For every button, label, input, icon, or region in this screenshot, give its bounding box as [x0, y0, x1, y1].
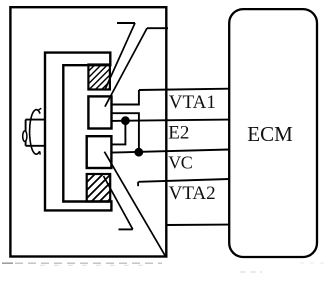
svg-text:ECM: ECM — [247, 122, 293, 146]
wire E2 — [112, 120, 230, 121]
wire VTA2 — [138, 179, 229, 182]
contact 2 (VTA2 brush) — [87, 136, 112, 168]
resistive track R2 (hatched) — [87, 174, 111, 202]
shaft end cap — [23, 131, 27, 142]
svg-text:VTA1: VTA1 — [169, 92, 216, 113]
rotation arrow around shaft — [30, 110, 40, 155]
shaft (throttle shaft) — [26, 120, 46, 146]
wiper arm W2 bar — [147, 27, 168, 29]
wire stub from contact 1 down to VC junction — [112, 113, 139, 152]
wire shield — [166, 224, 229, 226]
sensor housing box — [10, 7, 166, 256]
wiper arm W4 needle (to box corner) — [104, 152, 165, 256]
ECM U1 box — [229, 9, 317, 257]
wire VTA1 — [139, 89, 229, 90]
wire stub from contact 1 to VTA1 (step) — [112, 90, 139, 105]
wiper arm W1 needle — [105, 23, 135, 90]
wiper arm W1 bar — [117, 22, 135, 24]
wiper arm W3 bar — [119, 228, 133, 230]
sensor frame (C bracket) — [45, 53, 111, 211]
svg-text:E2: E2 — [168, 123, 189, 144]
scan artifact dashes — [2, 263, 330, 272]
wiper arm W3 needle (into lower track) — [104, 176, 133, 229]
wiper arm W3 hook from VTA2 wire — [137, 182, 139, 186]
resistive track R1 (hatched) — [88, 65, 110, 90]
wire VC — [111, 150, 229, 153]
wiper arm W2 needle — [105, 28, 147, 107]
wire from E2 junction down into contact 2 — [111, 121, 125, 145]
svg-text:VTA2: VTA2 — [169, 183, 216, 204]
junction dot on VC wire — [134, 148, 143, 157]
contact 1 (VTA1 brush) — [88, 96, 111, 128]
junction dot on E2 wire — [121, 116, 130, 125]
svg-text:VC: VC — [168, 153, 192, 173]
